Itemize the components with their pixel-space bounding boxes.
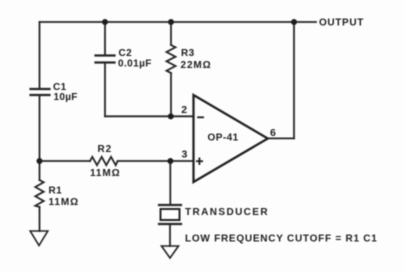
svg-text:TRANSDUCER: TRANSDUCER: [185, 207, 269, 218]
svg-text:2: 2: [181, 104, 187, 116]
svg-text:0.01µF: 0.01µF: [118, 59, 152, 70]
svg-text:OUTPUT: OUTPUT: [319, 17, 364, 28]
svg-text:3: 3: [182, 149, 188, 161]
svg-text:R3: R3: [181, 48, 195, 59]
svg-text:11MΩ: 11MΩ: [49, 197, 80, 208]
svg-text:6: 6: [270, 127, 276, 139]
svg-text:R2: R2: [98, 144, 113, 155]
svg-text:R1: R1: [49, 186, 63, 197]
svg-text:LOW FREQUENCY CUTOFF = R1 C1: LOW FREQUENCY CUTOFF = R1 C1: [185, 234, 378, 245]
svg-text:22MΩ: 22MΩ: [181, 60, 212, 71]
svg-text:10µF: 10µF: [54, 92, 78, 103]
svg-text:11MΩ: 11MΩ: [90, 168, 121, 179]
svg-text:OP-41: OP-41: [208, 133, 239, 144]
